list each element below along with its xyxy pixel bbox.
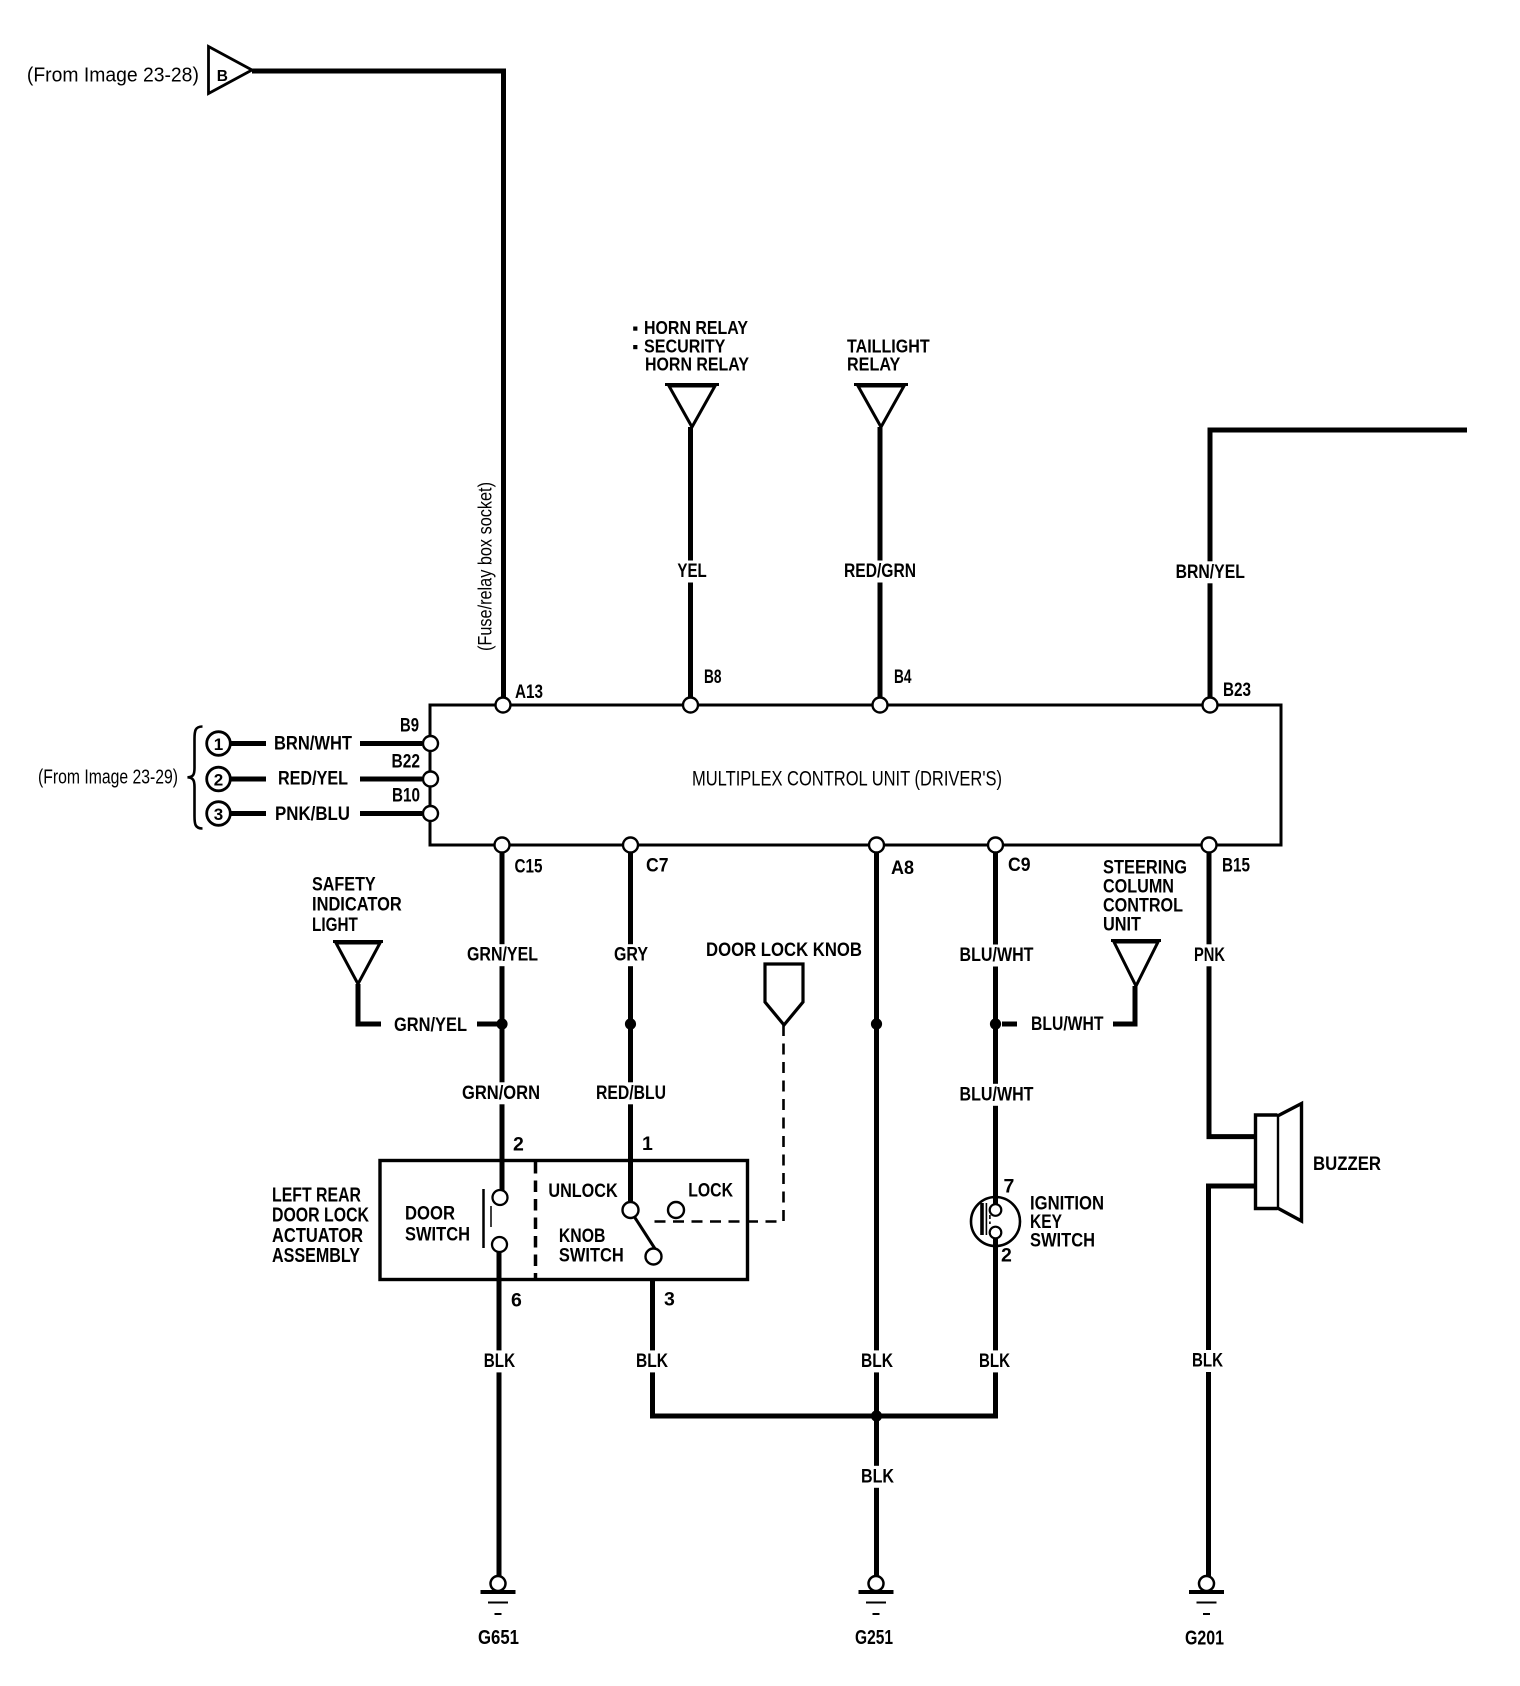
label BRN/YEL bbox=[1176, 561, 1245, 583]
horn relay / security horn relay symbol bbox=[633, 317, 749, 427]
label BLK on buzzer wire bbox=[1192, 1350, 1223, 1372]
svg-text:B4: B4 bbox=[894, 667, 912, 688]
svg-text:G651: G651 bbox=[478, 1627, 519, 1649]
label BLU/WHT lower bbox=[960, 1083, 1034, 1105]
label GRN/ORN bbox=[462, 1082, 540, 1104]
wire: door switch pin 6 BLK to ground G651 bbox=[497, 1252, 502, 1576]
svg-text:2: 2 bbox=[214, 770, 223, 789]
svg-text:GRY: GRY bbox=[614, 944, 648, 966]
pin 6 door switch bbox=[511, 1290, 522, 1312]
svg-text:1: 1 bbox=[214, 735, 223, 754]
pin C9 bbox=[988, 838, 1031, 877]
svg-text:KNOB: KNOB bbox=[559, 1226, 606, 1247]
pin B4 bbox=[873, 667, 912, 713]
wire: knob switch pin 3 BLK down bbox=[650, 1281, 655, 1419]
wire: C7 GRY RED/BLU to knob switch pin 1 bbox=[628, 852, 633, 1202]
label IGNITION KEY SWITCH bbox=[1030, 1194, 1104, 1252]
svg-text:DOOR: DOOR bbox=[405, 1202, 455, 1224]
pin B22 bbox=[392, 752, 439, 787]
wire: BRN/YEL feed to B23 bbox=[1210, 430, 1467, 697]
label (From Image 23-28) bbox=[27, 65, 199, 87]
svg-text:ASSEMBLY: ASSEMBLY bbox=[272, 1245, 361, 1267]
svg-text:BLK: BLK bbox=[979, 1350, 1010, 1372]
junction on A8 wire bbox=[871, 1018, 882, 1029]
left rear door lock actuator assembly box bbox=[380, 1161, 748, 1280]
wire: C15 GRN/YEL GRN/ORN to door switch pin 2 bbox=[500, 852, 505, 1190]
svg-text:BLK: BLK bbox=[861, 1350, 893, 1372]
ground G201 bbox=[1185, 1576, 1224, 1650]
buzzer bbox=[1256, 1104, 1382, 1222]
label BLK below bus junction bbox=[861, 1465, 894, 1487]
svg-text:BLK: BLK bbox=[484, 1350, 515, 1372]
label MULTIPLEX CONTROL UNIT (DRIVER'S) bbox=[692, 767, 1002, 791]
svg-text:B: B bbox=[217, 68, 228, 85]
wire: PNK/BLU to B10 bbox=[230, 811, 422, 816]
label backgrounds for on-wire labels bbox=[459, 561, 1249, 1488]
label PNK/BLU bbox=[275, 803, 350, 825]
wire: RED/YEL to B22 bbox=[230, 777, 422, 782]
wire: horn relay YEL to B8 bbox=[688, 427, 693, 697]
pin 1 knob switch bbox=[642, 1133, 653, 1155]
wire: C9 BLU/WHT to ignition key switch pin 7 bbox=[993, 852, 998, 1198]
wire: feed from connector B to A13 bbox=[252, 71, 504, 697]
svg-text:B15: B15 bbox=[1222, 856, 1250, 877]
svg-text:BLK: BLK bbox=[1192, 1350, 1223, 1372]
wire: BRN/WHT to B9 bbox=[230, 741, 422, 746]
svg-text:G251: G251 bbox=[855, 1627, 893, 1649]
pin B23 bbox=[1203, 680, 1252, 713]
svg-text:PNK/BLU: PNK/BLU bbox=[275, 803, 350, 825]
svg-text:B8: B8 bbox=[704, 667, 722, 688]
svg-text:GRN/ORN: GRN/ORN bbox=[462, 1082, 540, 1104]
pin A13 bbox=[496, 682, 544, 713]
svg-text:INDICATOR: INDICATOR bbox=[312, 895, 402, 916]
svg-text:SWITCH: SWITCH bbox=[1030, 1230, 1095, 1251]
ground G651 bbox=[478, 1576, 519, 1649]
svg-text:BRN/WHT: BRN/WHT bbox=[274, 733, 352, 755]
svg-text:YEL: YEL bbox=[677, 560, 706, 582]
label PNK on B15 wire bbox=[1194, 944, 1225, 966]
brace for from-image-23-29 group bbox=[188, 727, 203, 829]
svg-text:6: 6 bbox=[511, 1290, 522, 1312]
svg-text:RELAY: RELAY bbox=[847, 354, 901, 375]
svg-text:B23: B23 bbox=[1223, 680, 1251, 701]
svg-text:BLU/WHT: BLU/WHT bbox=[960, 1083, 1034, 1105]
svg-text:ACTUATOR: ACTUATOR bbox=[272, 1225, 363, 1247]
svg-text:B10: B10 bbox=[392, 786, 420, 807]
svg-text:3: 3 bbox=[664, 1289, 675, 1311]
svg-text:1: 1 bbox=[642, 1133, 653, 1155]
svg-text:BLU/WHT: BLU/WHT bbox=[1031, 1013, 1104, 1035]
svg-text:BUZZER: BUZZER bbox=[1313, 1154, 1381, 1175]
pin 3 knob switch bbox=[664, 1289, 675, 1311]
pin B10 bbox=[392, 786, 438, 822]
wire: door lock knob dashed link bbox=[647, 1025, 784, 1222]
svg-text:2: 2 bbox=[513, 1134, 524, 1156]
wire: steering column control unit BLU/WHT branch bbox=[1002, 986, 1135, 1024]
pin B8 bbox=[683, 667, 722, 713]
pin 2 ignition key switch bbox=[1001, 1245, 1012, 1267]
wire: B15 PNK to buzzer bbox=[1209, 852, 1254, 1137]
svg-text:RED/GRN: RED/GRN bbox=[844, 560, 916, 582]
ground G251 bbox=[855, 1576, 894, 1649]
label BLK on A8 wire bbox=[861, 1350, 893, 1372]
svg-text:UNLOCK: UNLOCK bbox=[548, 1181, 618, 1202]
svg-text:A13: A13 bbox=[515, 682, 543, 703]
label RED/GRN bbox=[844, 560, 916, 582]
label GRN/YEL branch bbox=[394, 1014, 467, 1036]
wire: safety indicator light GRN/YEL branch bbox=[358, 984, 500, 1024]
wire: buzzer BLK to ground G201 bbox=[1209, 1186, 1255, 1576]
svg-text:(From Image 23-29): (From Image 23-29) bbox=[38, 767, 178, 789]
junction on bottom BLK bus bbox=[871, 1410, 882, 1421]
svg-text:UNIT: UNIT bbox=[1103, 915, 1141, 936]
svg-text:LIGHT: LIGHT bbox=[312, 915, 358, 936]
taillight relay symbol bbox=[847, 336, 930, 428]
pin C7 bbox=[623, 838, 669, 877]
connector B from image 23-28 bbox=[209, 47, 253, 94]
svg-text:STEERING: STEERING bbox=[1103, 858, 1187, 879]
svg-text:RED/BLU: RED/BLU bbox=[596, 1082, 666, 1104]
label GRY on C7 wire bbox=[614, 944, 648, 966]
safety indicator light symbol bbox=[312, 874, 402, 984]
svg-text:DOOR LOCK KNOB: DOOR LOCK KNOB bbox=[706, 939, 862, 961]
svg-text:2: 2 bbox=[1001, 1245, 1012, 1267]
svg-text:HORN RELAY: HORN RELAY bbox=[645, 354, 750, 375]
label BLU/WHT branch bbox=[1031, 1013, 1104, 1035]
svg-text:(From Image 23-28): (From Image 23-28) bbox=[27, 65, 199, 87]
multiplex control unit U1 box bbox=[430, 705, 1281, 845]
svg-text:BRN/YEL: BRN/YEL bbox=[1176, 561, 1245, 583]
pin B9 bbox=[400, 716, 438, 752]
svg-text:PNK: PNK bbox=[1194, 944, 1225, 966]
label (From Image 23-29) bbox=[38, 767, 178, 789]
label (Fuse/relay box socket) rotated bbox=[476, 482, 497, 651]
steering column control unit symbol bbox=[1103, 858, 1187, 986]
door switch S1 bbox=[405, 1189, 508, 1252]
pin C15 bbox=[495, 838, 543, 878]
label BLK on knob switch wire bbox=[636, 1350, 668, 1372]
svg-text:BLK: BLK bbox=[861, 1465, 894, 1487]
svg-text:B22: B22 bbox=[392, 752, 421, 773]
label RED/BLU bbox=[596, 1082, 666, 1104]
label GRN/YEL on C15 wire bbox=[467, 944, 538, 966]
wire: bottom BLK bus joining to G251 bbox=[650, 1414, 998, 1419]
svg-text:C7: C7 bbox=[646, 856, 669, 877]
pin B15 bbox=[1202, 838, 1251, 877]
svg-text:SWITCH: SWITCH bbox=[559, 1246, 624, 1267]
dashed divider inside assembly box bbox=[534, 1162, 538, 1279]
svg-text:3: 3 bbox=[214, 805, 223, 824]
svg-text:MULTIPLEX CONTROL UNIT (DRIVER: MULTIPLEX CONTROL UNIT (DRIVER'S) bbox=[692, 767, 1002, 791]
svg-text:RED/YEL: RED/YEL bbox=[278, 768, 348, 790]
label RED/YEL bbox=[278, 768, 348, 790]
svg-text:SWITCH: SWITCH bbox=[405, 1224, 470, 1246]
svg-text:G201: G201 bbox=[1185, 1628, 1224, 1650]
junction on C9 wire bbox=[990, 1018, 1001, 1029]
door lock knob symbol bbox=[706, 939, 862, 1025]
label YEL bbox=[677, 560, 706, 582]
pin 2 door switch bbox=[513, 1134, 524, 1156]
svg-text:DOOR LOCK: DOOR LOCK bbox=[272, 1205, 369, 1227]
svg-text:C9: C9 bbox=[1008, 855, 1031, 876]
pin A8 bbox=[869, 838, 914, 880]
label BRN/WHT bbox=[274, 733, 352, 755]
svg-text:LOCK: LOCK bbox=[688, 1181, 733, 1202]
pin 7 ignition key switch bbox=[1004, 1176, 1015, 1198]
svg-text:C15: C15 bbox=[515, 857, 543, 878]
node 3 circled bbox=[207, 802, 231, 826]
wire: taillight relay RED/GRN to B4 bbox=[878, 427, 883, 697]
knob switch S2 bbox=[548, 1181, 733, 1267]
label BLK on ignition wire bbox=[979, 1350, 1010, 1372]
node 1 circled bbox=[207, 732, 231, 756]
svg-text:B9: B9 bbox=[400, 716, 419, 737]
label BLU/WHT on C9 wire bbox=[960, 944, 1034, 966]
node 2 circled bbox=[207, 767, 231, 791]
wire: ignition key switch pin 2 BLK down bbox=[993, 1245, 998, 1419]
svg-text:COLUMN: COLUMN bbox=[1103, 877, 1174, 898]
svg-text:GRN/YEL: GRN/YEL bbox=[394, 1014, 467, 1036]
junction on C15 wire bbox=[496, 1018, 507, 1029]
svg-text:BLK: BLK bbox=[636, 1350, 668, 1372]
ignition key switch S3 bbox=[971, 1196, 1020, 1248]
svg-text:(Fuse/relay box socket): (Fuse/relay box socket) bbox=[476, 482, 497, 651]
label LEFT REAR DOOR LOCK ACTUATOR ASSEMBLY bbox=[272, 1184, 369, 1267]
junction on C7 wire bbox=[625, 1018, 636, 1029]
svg-text:7: 7 bbox=[1004, 1176, 1015, 1198]
svg-text:LEFT REAR: LEFT REAR bbox=[272, 1184, 361, 1206]
svg-text:BLU/WHT: BLU/WHT bbox=[960, 944, 1034, 966]
svg-text:GRN/YEL: GRN/YEL bbox=[467, 944, 538, 966]
label BLK on door switch wire bbox=[484, 1350, 515, 1372]
svg-text:A8: A8 bbox=[891, 858, 914, 879]
wire: A8 BLK to ground G251 bbox=[874, 852, 879, 1576]
svg-text:SAFETY: SAFETY bbox=[312, 874, 376, 895]
